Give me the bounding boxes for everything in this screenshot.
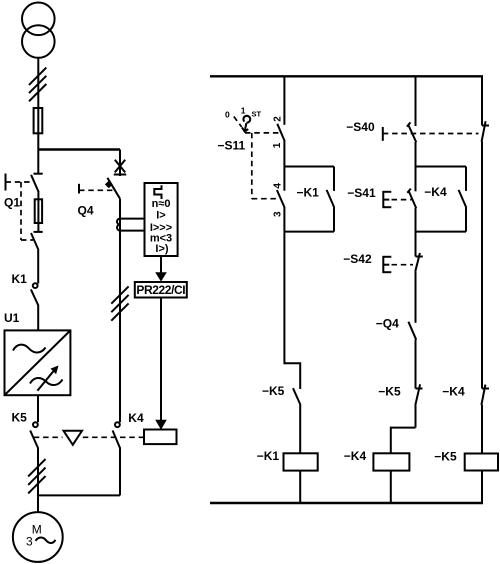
wire S41 to S42 xyxy=(415,208,417,257)
arrow into PR222 xyxy=(155,272,167,281)
S42 NC contact blade xyxy=(415,253,420,271)
S41 linkage dashed xyxy=(392,199,412,201)
svg-text:1: 1 xyxy=(272,142,283,148)
top control bus xyxy=(210,75,483,77)
svg-text:−K5: −K5 xyxy=(434,450,457,464)
contactor bypass contact blade xyxy=(113,431,120,449)
Q4 manual actuator bar xyxy=(78,184,80,194)
svg-text:2: 2 xyxy=(272,116,283,122)
Q4 blade diamond xyxy=(105,181,113,189)
circuit breaker Q1 upper blade xyxy=(31,175,38,192)
K4 aux branch bottom wire xyxy=(416,231,467,233)
converter output sine symbol xyxy=(30,378,63,385)
contactor K5 contact blade xyxy=(30,431,38,449)
transformer T1 upper winding xyxy=(22,3,55,36)
interlock triangle xyxy=(64,431,83,445)
right NC contact blade xyxy=(482,121,486,141)
CT wire upper xyxy=(120,218,145,220)
wire horizontal branch node xyxy=(38,148,120,150)
wire K1 coil to bus xyxy=(299,471,301,503)
svg-text:K1: K1 xyxy=(12,272,28,286)
svg-text:−S41: −S41 xyxy=(347,186,376,200)
S11 contact 1-2 blade xyxy=(277,124,284,141)
Q1 linkage dashed foot xyxy=(21,239,33,241)
K4 aux branch right terminal xyxy=(465,167,467,191)
arrow into K4 coil xyxy=(155,420,167,430)
circuit breaker Q1 upper fixed-contact tick xyxy=(34,173,43,175)
wire S11 contact3 down xyxy=(283,207,285,365)
frequency converter U1 box xyxy=(5,330,71,395)
contactor K1 main contact arc xyxy=(33,283,38,288)
K4 aux lower terminal xyxy=(465,207,467,231)
S42 NC contact foot xyxy=(416,256,423,258)
wire S11 contact1 to node xyxy=(283,141,285,167)
svg-text:−K5: −K5 xyxy=(378,385,401,399)
wire bus to S11 contact 2 xyxy=(283,76,285,125)
K1 aux branch bottom wire xyxy=(284,231,334,233)
svg-text:n≈0: n≈0 xyxy=(152,198,171,210)
wire jog to K4 coil column xyxy=(391,428,416,454)
interlock dashed line left xyxy=(34,436,63,438)
Q1 linkage dashed horizontal xyxy=(6,181,34,183)
svg-text:I>: I> xyxy=(156,209,165,221)
Q1 manual actuator bar xyxy=(5,174,7,191)
release coil K4 xyxy=(144,430,177,445)
PR222/CI box xyxy=(135,282,187,298)
3-phase slash marks on Q4 branch xyxy=(111,286,128,320)
wire converter to K5 xyxy=(37,395,39,422)
selector S11 dashed pointer xyxy=(234,117,242,128)
wire Q4 to K5 contact xyxy=(415,340,417,389)
Q4 linkage dashed xyxy=(79,189,115,191)
svg-text:−K4: −K4 xyxy=(442,385,465,399)
svg-text:0: 0 xyxy=(225,110,230,120)
svg-text:3: 3 xyxy=(273,211,284,217)
svg-text:−K1: −K1 xyxy=(297,185,320,199)
3-phase slash marks on supply wire xyxy=(29,68,46,102)
circuit breaker Q1 lower fixed-contact tick xyxy=(34,231,43,233)
motor M 3~ xyxy=(13,512,63,562)
wire bypass vertical lower xyxy=(119,448,121,496)
svg-text:−S42: −S42 xyxy=(343,252,372,266)
interlock dashed line right xyxy=(83,436,144,438)
Q4 aux NO contact blade xyxy=(408,322,416,340)
contactor K1 main contact blade xyxy=(31,289,38,305)
wire Q1 branch top xyxy=(37,150,39,175)
wire blade to fuse xyxy=(37,191,39,232)
S40 NC nub xyxy=(407,122,411,126)
selector S11 arrow head xyxy=(242,127,248,131)
K5 aux NO contact blade xyxy=(293,388,301,405)
svg-text:−S11: −S11 xyxy=(218,139,246,153)
contactor coil K1 xyxy=(284,453,318,470)
K5 NC contact foot xyxy=(416,388,423,390)
svg-text:4: 4 xyxy=(273,183,284,189)
S41 NC contact blade xyxy=(409,191,417,208)
K4 aux branch top wire xyxy=(416,166,467,168)
svg-text:Q4: Q4 xyxy=(78,204,94,218)
wire K5 coil to bus xyxy=(481,471,483,504)
wire right column long xyxy=(481,141,483,388)
transformer T1 lower winding xyxy=(22,25,55,58)
S40 linkage dashed xyxy=(383,133,479,135)
K4 NC contact blade xyxy=(481,385,485,405)
fuse F1 xyxy=(34,108,43,133)
svg-text:1: 1 xyxy=(241,106,246,116)
breaker X symbol on Q4 branch xyxy=(114,160,126,175)
svg-text:ST: ST xyxy=(252,110,262,119)
S11 linkage dashed bottom xyxy=(252,198,280,200)
selector S11 knob loop xyxy=(243,116,250,123)
svg-text:K5: K5 xyxy=(12,411,28,425)
svg-text:−K1: −K1 xyxy=(257,449,280,463)
wire K4 contact to K5 coil xyxy=(481,405,483,454)
wire relay to PR222 xyxy=(160,256,162,274)
wire Q4 branch long vertical xyxy=(119,199,121,423)
svg-text:PR222/CI: PR222/CI xyxy=(136,283,185,297)
right NC contact foot xyxy=(482,125,489,127)
K1 aux lower terminal xyxy=(333,207,335,231)
wire K5 contact down xyxy=(415,405,417,428)
wire S40 to node xyxy=(415,142,417,167)
S40 actuator bar xyxy=(382,127,384,141)
K4 NC contact foot xyxy=(482,388,489,390)
svg-text:−K4: −K4 xyxy=(424,185,447,199)
wire K5 contact to K1 coil xyxy=(299,405,301,454)
relay trip-curve hook symbol xyxy=(154,185,161,199)
converter input sine symbol xyxy=(13,345,46,353)
wire K4 coil to bus xyxy=(390,471,392,503)
svg-text:−K5: −K5 xyxy=(262,384,285,398)
converter variable arrow xyxy=(37,371,54,391)
S41 contact terminal xyxy=(415,167,417,192)
contactor coil K4 xyxy=(373,453,409,470)
S41 emergency head symbol xyxy=(383,191,391,208)
3-phase slash marks on motor wire xyxy=(28,459,45,493)
wire bus to S40 contact xyxy=(415,76,417,126)
S11 contact 3-4 blade xyxy=(277,190,285,207)
S11 linkage dashed top xyxy=(245,132,279,134)
wire bus to right NC contact xyxy=(481,76,483,125)
svg-text:K4: K4 xyxy=(128,411,144,425)
K1 aux branch right terminal xyxy=(333,167,335,191)
switch-disconnector Q4 blade xyxy=(107,178,120,199)
wire transformer to fuse xyxy=(37,58,39,150)
circuit breaker Q1 lower blade xyxy=(31,233,39,250)
S11 linkage dashed vertical xyxy=(251,133,253,199)
svg-text:Q1: Q1 xyxy=(4,196,20,210)
K1 aux contact blade xyxy=(327,190,335,208)
svg-text:I>): I>) xyxy=(155,243,168,255)
wire Q4 branch top xyxy=(119,150,121,177)
wire PR222 to K4 coil xyxy=(160,298,162,422)
wire Q1 to K1 contact xyxy=(37,250,39,284)
converter diagonal xyxy=(5,330,71,395)
S42 linkage dashed xyxy=(392,264,414,266)
svg-text:3: 3 xyxy=(26,535,33,549)
K4 aux contact blade xyxy=(459,190,467,208)
wire K1 to converter xyxy=(37,305,39,331)
wire K5 to motor xyxy=(37,448,39,513)
svg-text:−K4: −K4 xyxy=(344,449,367,463)
CT wire lower xyxy=(120,230,145,232)
wire S42 to Q4 xyxy=(415,271,417,323)
contactor coil K5 xyxy=(465,454,498,471)
S41 NC nub xyxy=(407,189,411,193)
fuse inside Q1 xyxy=(35,199,42,223)
svg-text:−Q4: −Q4 xyxy=(376,317,399,331)
current sensor arcs xyxy=(117,219,120,231)
contactor bypass contact arc xyxy=(115,422,120,427)
contactor K5 contact arc xyxy=(33,422,38,427)
bottom control bus xyxy=(210,502,483,504)
wire jog to K1 coil column xyxy=(284,363,300,389)
protection relay box xyxy=(145,183,178,256)
S11 contact 3-4 terminal xyxy=(283,167,285,191)
S40 NC contact blade xyxy=(408,125,416,142)
K1 aux branch top wire xyxy=(284,166,334,168)
svg-text:−S40: −S40 xyxy=(346,120,375,134)
S42 emergency head symbol xyxy=(383,256,391,273)
Q1 linkage dashed vertical xyxy=(20,182,22,240)
svg-text:M: M xyxy=(32,523,42,537)
svg-text:U1: U1 xyxy=(4,311,20,325)
wire bypass join horizontal xyxy=(38,494,120,496)
K5 NC contact blade xyxy=(415,384,420,405)
